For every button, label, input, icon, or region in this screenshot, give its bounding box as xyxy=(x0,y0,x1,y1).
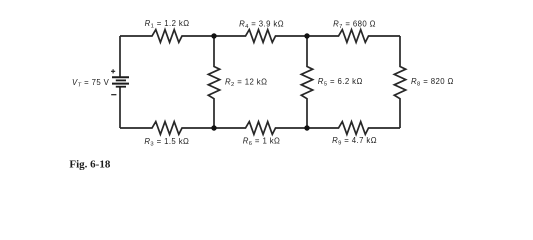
resistor R9 xyxy=(307,122,400,135)
resistor R3 xyxy=(120,122,214,135)
svg-text:VT = 75 V: VT = 75 V xyxy=(72,78,110,89)
svg-text:Fig. 6-18: Fig. 6-18 xyxy=(69,158,110,170)
resistor R8 xyxy=(394,36,405,128)
svg-text:R8 = 820 Ω: R8 = 820 Ω xyxy=(411,77,454,88)
node junction top-right xyxy=(304,33,309,38)
resistor R7 xyxy=(307,30,400,43)
resistor R4 xyxy=(214,30,307,43)
svg-text:R9 = 4.7 kΩ: R9 = 4.7 kΩ xyxy=(332,136,377,147)
svg-text:R6 = 1 kΩ: R6 = 1 kΩ xyxy=(243,136,281,147)
svg-text:R3 = 1.5 kΩ: R3 = 1.5 kΩ xyxy=(144,137,189,148)
svg-text:R4 = 3.9 kΩ: R4 = 3.9 kΩ xyxy=(239,19,284,30)
node junction bottom-right xyxy=(304,125,309,130)
svg-text:R7 = 680 Ω: R7 = 680 Ω xyxy=(333,19,376,30)
node junction top-left xyxy=(211,33,216,38)
battery VT plates xyxy=(112,77,129,86)
battery minus sign xyxy=(111,94,116,96)
resistor R6 xyxy=(214,122,307,135)
resistor R1 xyxy=(120,30,214,43)
svg-text:R2 = 12 kΩ: R2 = 12 kΩ xyxy=(225,77,267,88)
resistor R2 xyxy=(208,36,219,128)
battery plus sign xyxy=(111,69,115,73)
resistor R5 xyxy=(301,36,312,128)
node junction bottom-left xyxy=(211,125,216,130)
svg-text:R5 = 6.2 kΩ: R5 = 6.2 kΩ xyxy=(318,77,363,88)
wire battery top lead xyxy=(119,36,121,77)
wire battery bottom lead xyxy=(119,87,121,128)
svg-text:R1 = 1.2 kΩ: R1 = 1.2 kΩ xyxy=(145,19,190,30)
